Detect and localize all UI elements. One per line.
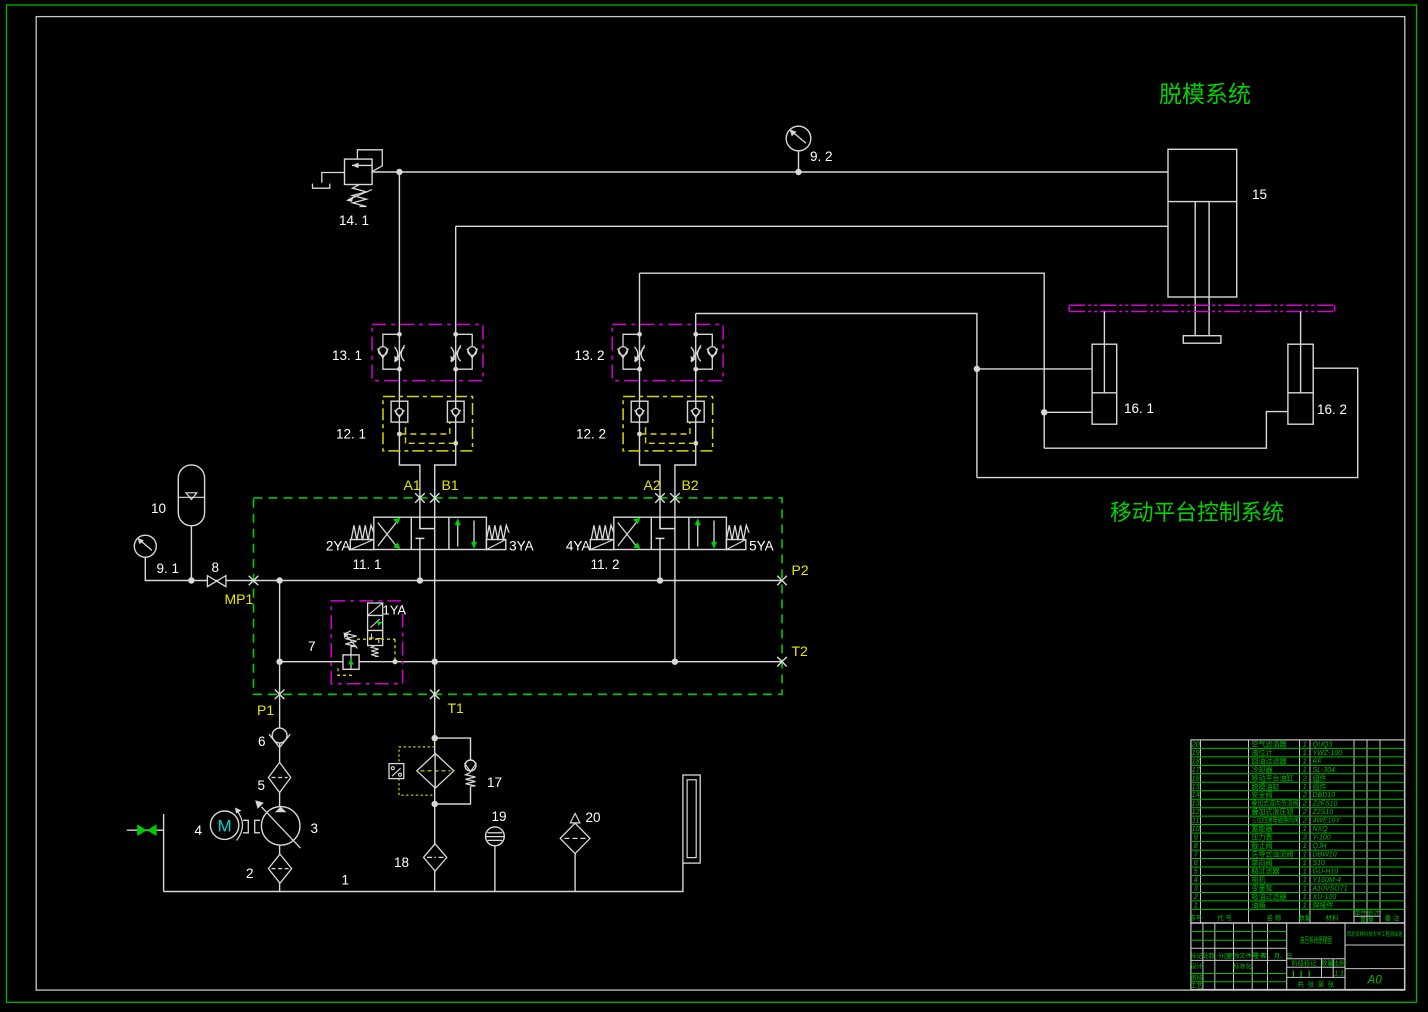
svg-text:GU-H10: GU-H10	[1313, 869, 1339, 876]
coupling motor-pump	[235, 808, 260, 841]
svg-text:处数: 处数	[1202, 952, 1215, 960]
svg-text:11. 1: 11. 1	[353, 557, 382, 572]
wire accumulator stem	[190, 526, 192, 581]
wire 13.2 B-side to cylinder rod ports	[696, 314, 1358, 478]
solenoid directional valve 11. 2	[590, 517, 749, 549]
suction filter 2	[268, 854, 291, 883]
svg-text:变量泵: 变量泵	[1252, 883, 1273, 892]
wire P1 column	[279, 581, 281, 892]
svg-text:1: 1	[1194, 900, 1198, 909]
cylinder 16.2	[1288, 312, 1313, 425]
svg-text:9. 2: 9. 2	[810, 149, 833, 164]
port P1	[275, 690, 285, 700]
pilot operated check valve module 12. 2	[623, 397, 713, 451]
node pilot drain junction	[392, 659, 397, 664]
wire main pressure line to demold system	[372, 171, 1168, 173]
manifold block boundary (green dashed)	[254, 498, 783, 694]
level gauge on tank	[683, 775, 700, 863]
node junction 16.1 bottom port	[1041, 409, 1047, 415]
wire B2 column (13.2 right line)	[675, 314, 696, 662]
svg-text:16. 1: 16. 1	[1124, 401, 1154, 416]
wire A1 valve to P2 line	[419, 538, 421, 580]
svg-text:标记: 标记	[1190, 952, 1202, 960]
svg-text:T1: T1	[448, 700, 465, 716]
title block parts list (BOM)	[1189, 739, 1404, 924]
svg-text:RF: RF	[1313, 758, 1323, 765]
svg-text:名 称: 名 称	[1267, 913, 1282, 922]
svg-text:DBD10: DBD10	[1313, 792, 1336, 799]
svg-text:序号: 序号	[1189, 913, 1203, 922]
relief valve 14.1	[313, 150, 383, 207]
svg-text:审核: 审核	[1190, 974, 1202, 982]
wire thermometer stem	[494, 846, 496, 892]
svg-text:A1: A1	[404, 477, 421, 493]
svg-text:8: 8	[212, 560, 220, 575]
svg-text:YWZ-100: YWZ-100	[1313, 750, 1343, 757]
bypass check valve of 17	[465, 760, 477, 786]
node bypass bottom junction	[432, 801, 438, 807]
wire filter 17 bypass loop	[435, 738, 471, 804]
node T1 bypass top junction	[432, 735, 438, 741]
svg-text:1YA: 1YA	[383, 603, 407, 618]
accumulator 10	[178, 465, 204, 526]
svg-text:2YA: 2YA	[326, 539, 351, 554]
pressure gauge 9.1	[134, 535, 156, 557]
svg-text:B1: B1	[442, 477, 459, 493]
svg-text:5: 5	[258, 778, 266, 793]
svg-text:空气滤清器: 空气滤清器	[1252, 739, 1287, 748]
svg-text:比例: 比例	[1333, 960, 1345, 968]
svg-text:组件: 组件	[1313, 773, 1327, 782]
wire tank return line	[164, 863, 683, 891]
drain valve (green)	[127, 824, 164, 836]
svg-text:吸油过滤器: 吸油过滤器	[1252, 892, 1287, 901]
svg-text:1: 1	[342, 873, 350, 888]
svg-text:西北农林科技大学工程测绘班: 西北农林科技大学工程测绘班	[1347, 930, 1403, 938]
svg-text:P2: P2	[792, 562, 809, 578]
svg-text:16. 2: 16. 2	[1317, 402, 1347, 417]
return filter 17	[399, 747, 454, 795]
svg-text:单向阀: 单向阀	[1252, 858, 1273, 867]
svg-text:代 号: 代 号	[1217, 913, 1232, 922]
svg-text:4YA: 4YA	[566, 539, 591, 554]
svg-text:总计: 总计	[1367, 909, 1379, 917]
svg-text:叠加式双向节流阀: 叠加式双向节流阀	[1252, 799, 1299, 808]
svg-text:T2: T2	[792, 643, 809, 659]
moving platform (phantom line)	[1069, 305, 1334, 311]
svg-text:15: 15	[1252, 187, 1267, 202]
svg-text:压力表: 压力表	[1252, 833, 1273, 842]
svg-text:截止阀: 截止阀	[1252, 841, 1273, 850]
svg-text:Z2S10: Z2S10	[1312, 809, 1334, 816]
wire T2 rail	[280, 661, 782, 663]
svg-text:6: 6	[258, 734, 266, 749]
svg-text:QUQ3: QUQ3	[1313, 741, 1333, 748]
svg-text:焊接件: 焊接件	[1313, 900, 1334, 909]
svg-text:油箱: 油箱	[1252, 900, 1266, 909]
svg-text:3: 3	[311, 821, 319, 836]
wire P2 rail	[254, 580, 783, 582]
node junction on main line	[396, 169, 402, 175]
throttle check valve module 13. 2	[612, 324, 723, 380]
svg-text:Y160M-4: Y160M-4	[1313, 877, 1342, 884]
svg-text:Y-100: Y-100	[1313, 835, 1331, 842]
svg-text:单件: 单件	[1354, 909, 1366, 917]
port P2	[777, 576, 787, 586]
pressure gauge 9.2	[786, 126, 811, 151]
wire air breather stem	[574, 854, 576, 892]
svg-text:液压系统原理图: 液压系统原理图	[1300, 935, 1332, 945]
svg-text:A10VSO71: A10VSO71	[1312, 885, 1348, 892]
svg-text:电机: 电机	[1252, 875, 1266, 884]
shutoff valve 8	[207, 576, 226, 587]
svg-text:数量: 数量	[1298, 913, 1312, 922]
svg-text:备 注: 备 注	[1385, 913, 1400, 922]
svg-text:工艺: 工艺	[1190, 982, 1202, 990]
svg-text:4WE10Y: 4WE10Y	[1313, 818, 1342, 825]
return line filter 18	[424, 844, 447, 871]
thermometer 19	[486, 827, 505, 846]
svg-text:2: 2	[246, 866, 254, 881]
svg-text:17: 17	[487, 775, 502, 790]
svg-text:A0: A0	[1367, 975, 1383, 987]
svg-text:共 张 第 张: 共 张 第 张	[1297, 980, 1334, 989]
svg-text:DBW10: DBW10	[1313, 852, 1337, 859]
svg-text:叠加式液压锁: 叠加式液压锁	[1252, 807, 1294, 816]
svg-text:QJH: QJH	[1313, 843, 1328, 850]
variable pump 3	[255, 800, 300, 848]
wire 13.2 A-side to cylinder bottom ports	[640, 273, 1288, 448]
svg-text:18: 18	[394, 855, 409, 870]
svg-text:19: 19	[492, 809, 507, 824]
node T2 junctions	[276, 659, 282, 665]
svg-text:液位计: 液位计	[1252, 748, 1273, 757]
svg-text:14. 1: 14. 1	[339, 213, 369, 228]
port B1	[430, 493, 440, 503]
solenoid relief valve 7 assembly	[331, 601, 402, 684]
svg-text:12. 1: 12. 1	[336, 427, 366, 442]
svg-text:1: 1	[1303, 900, 1307, 909]
svg-text:Z2FS10: Z2FS10	[1312, 801, 1338, 808]
svg-text:10: 10	[151, 501, 166, 516]
electric motor 4	[210, 811, 238, 839]
wire gauge 9.1 line	[145, 557, 253, 580]
wire drain drop	[163, 814, 165, 892]
wire B1/T1 column (13.1 right line, runs to tank)	[435, 226, 456, 890]
filter 5	[268, 762, 290, 792]
svg-text:标准化: 标准化	[1233, 963, 1252, 971]
svg-text:11. 2: 11. 2	[591, 557, 620, 572]
svg-text:材料: 材料	[1326, 913, 1340, 922]
wire A2 valve to P2 line	[659, 538, 661, 580]
svg-text:蓄能器: 蓄能器	[1252, 824, 1273, 833]
svg-text:脱模油缸: 脱模油缸	[1252, 782, 1280, 791]
svg-text:安全阀: 安全阀	[1252, 790, 1273, 799]
svg-text:冷却器: 冷却器	[1252, 765, 1273, 774]
svg-text:精过滤器: 精过滤器	[1252, 867, 1280, 876]
port T2	[777, 657, 787, 667]
svg-text:先导式溢流阀: 先导式溢流阀	[1252, 850, 1294, 859]
wire A2 column (13.2 left line)	[640, 273, 661, 528]
svg-text:MP1: MP1	[225, 591, 254, 607]
air breather 20	[560, 814, 590, 854]
wire gauge 9.2 stem	[798, 151, 800, 172]
svg-text:P1: P1	[257, 702, 274, 718]
node junction 16.1 rod port	[974, 366, 980, 372]
svg-text:XU-100: XU-100	[1312, 894, 1337, 901]
svg-text:13. 1: 13. 1	[332, 348, 362, 363]
title block signature area	[1190, 923, 1404, 990]
svg-text:三位四通电磁换向阀: 三位四通电磁换向阀	[1252, 816, 1299, 825]
wire A1 column (13.1 left line)	[399, 172, 420, 529]
svg-text:7: 7	[308, 639, 316, 654]
svg-text:数量: 数量	[1321, 960, 1333, 968]
svg-text:S10: S10	[1313, 860, 1326, 867]
svg-text:B2: B2	[682, 477, 699, 493]
cylinder 16.1	[1092, 312, 1117, 425]
svg-text:A2: A2	[644, 477, 661, 493]
pressure switch of 17	[389, 764, 404, 779]
check valve 6	[269, 728, 290, 747]
svg-text:4: 4	[195, 823, 203, 838]
wire rod-side line to cylinder 15	[456, 225, 1168, 227]
node P2 junctions	[276, 577, 282, 583]
svg-text:9. 1: 9. 1	[157, 561, 180, 576]
throttle check valve module 13. 1	[372, 324, 483, 380]
svg-text:设计: 设计	[1190, 963, 1202, 971]
svg-text:SL-304: SL-304	[1313, 767, 1336, 774]
svg-text:移动平台油缸: 移动平台油缸	[1252, 773, 1294, 782]
svg-text:3YA: 3YA	[509, 539, 534, 554]
svg-text:1:1: 1:1	[1334, 971, 1344, 978]
port MP1	[249, 576, 259, 586]
svg-text:脱模系统: 脱模系统	[1159, 81, 1251, 107]
port A1	[415, 493, 425, 503]
svg-text:5YA: 5YA	[749, 539, 774, 554]
port T1	[430, 690, 440, 700]
svg-text:回油过滤器: 回油过滤器	[1252, 756, 1287, 765]
svg-text:阶段标记: 阶段标记	[1292, 960, 1317, 968]
svg-text:13. 2: 13. 2	[575, 348, 605, 363]
port A2	[655, 493, 665, 503]
svg-text:20: 20	[586, 810, 601, 825]
node gauge 9.2 junction	[795, 169, 801, 175]
port B2	[670, 493, 680, 503]
cylinder 15 (demold cylinder)	[1168, 149, 1237, 343]
svg-text:NXQ: NXQ	[1313, 826, 1329, 833]
svg-text:M: M	[218, 817, 232, 836]
solenoid directional valve 11. 1	[350, 517, 509, 549]
svg-text:组件: 组件	[1313, 782, 1327, 791]
svg-text:移动平台控制系统: 移动平台控制系统	[1110, 500, 1284, 525]
pilot operated check valve module 12. 1	[383, 397, 473, 451]
svg-text:12. 2: 12. 2	[576, 427, 606, 442]
